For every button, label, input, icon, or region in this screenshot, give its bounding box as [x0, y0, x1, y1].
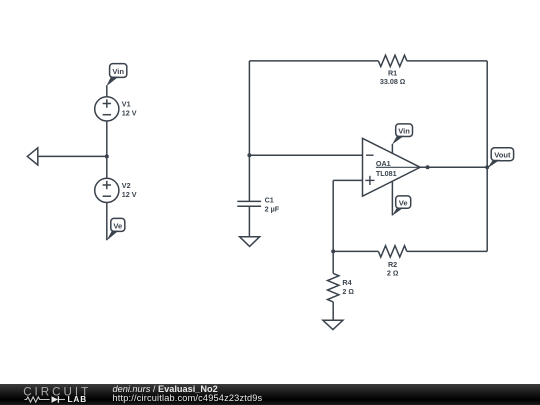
- footer bar: [0, 384, 540, 405]
- wire op-amp output to right vertical: [420, 166, 487, 168]
- svg-text:Vout: Vout: [494, 151, 511, 160]
- svg-text:2 Ω: 2 Ω: [342, 287, 354, 296]
- label R4 2 Ohm: [342, 278, 354, 296]
- svg-text:V2: V2: [122, 181, 131, 190]
- CircuitLab logo: [0, 384, 100, 405]
- wire non-inverting input horizontal: [333, 179, 362, 181]
- ground (below R4): [323, 320, 343, 329]
- resistor R4: [328, 273, 339, 301]
- terminal node symbol (left arrow): [27, 148, 38, 165]
- node flag Vin (op-amp V+): [392, 124, 412, 145]
- label R1 33.08 Ohm: [380, 69, 406, 87]
- wire inverting input: [249, 154, 362, 156]
- node flag Vout: [487, 148, 513, 169]
- svg-text:33.08 Ω: 33.08 Ω: [380, 77, 406, 86]
- svg-text:Ve: Ve: [113, 221, 122, 230]
- wire left vertical (R1 to C1): [248, 61, 250, 202]
- label OA1 TL081: [376, 159, 397, 178]
- svg-text:R4: R4: [342, 278, 351, 287]
- label R2 2 Ohm: [387, 260, 399, 278]
- wire V1 bottom to junction to V2 top: [106, 121, 108, 178]
- wire R1 right lead: [407, 60, 487, 62]
- junction dot (non-inverting node): [331, 249, 335, 253]
- label C1 2 uF: [265, 196, 280, 214]
- resistor R2: [378, 246, 406, 257]
- wire R2 right lead: [407, 250, 487, 252]
- capacitor C1: [237, 201, 261, 236]
- node flag Ve (op-amp V-): [392, 196, 411, 216]
- wire terminal to junction: [38, 155, 107, 157]
- junction dot (inverting node): [247, 153, 251, 157]
- svg-text:2 µF: 2 µF: [265, 204, 280, 213]
- svg-text:12 V: 12 V: [122, 190, 137, 199]
- svg-text:Vin: Vin: [398, 127, 410, 136]
- node flag Ve (left source): [107, 218, 125, 240]
- junction dot (left node): [105, 154, 109, 158]
- voltage source V1: [95, 97, 119, 121]
- svg-text:V1: V1: [122, 100, 131, 109]
- svg-text:TL081: TL081: [376, 169, 397, 178]
- wire non-inverting input vertical: [332, 180, 334, 273]
- svg-text:OA1: OA1: [376, 159, 391, 168]
- wire R1 left lead: [249, 60, 378, 62]
- svg-text:2 Ω: 2 Ω: [387, 269, 399, 278]
- wire V2 bottom to Ve flag: [106, 203, 108, 241]
- junction dot (output node): [485, 165, 489, 169]
- svg-text:12 V: 12 V: [122, 109, 137, 118]
- resistor R1: [378, 55, 406, 66]
- voltage source V2: [95, 178, 119, 202]
- svg-text:LAB: LAB: [68, 395, 88, 404]
- label V2 12 V: [122, 181, 137, 199]
- wire R2 left lead: [333, 250, 378, 252]
- footer caption text: [113, 385, 263, 404]
- svg-text:Ve: Ve: [399, 198, 408, 207]
- wire Vin flag to V1 top: [106, 85, 108, 97]
- wire right vertical (R1 to R2): [486, 61, 488, 252]
- pin V+ (op-amp top power pin): [391, 144, 393, 153]
- junction dot (op-amp output pin): [426, 165, 430, 169]
- pin V- (op-amp bottom power pin): [391, 181, 393, 215]
- op-amp OA1: [363, 138, 421, 196]
- ground (below C1): [240, 237, 260, 247]
- label V1 12 V: [122, 100, 137, 118]
- svg-text:Vin: Vin: [112, 67, 124, 76]
- wire R4 to ground: [332, 302, 334, 320]
- svg-text:C1: C1: [265, 196, 274, 205]
- node flag Vin (left source): [106, 64, 126, 87]
